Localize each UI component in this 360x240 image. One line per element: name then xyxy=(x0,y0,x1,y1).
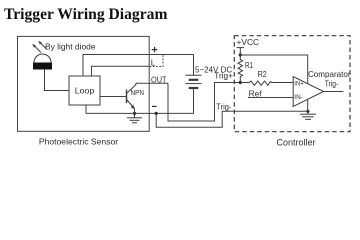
svg-text:NPN: NPN xyxy=(131,88,145,97)
wire emitter to minus rail xyxy=(134,109,136,114)
svg-text:+VCC: +VCC xyxy=(237,37,260,47)
svg-text:L: L xyxy=(151,57,156,67)
node emitter junction xyxy=(133,112,136,115)
wire L rail to Loop top xyxy=(92,66,150,76)
svg-text:R2: R2 xyxy=(258,70,267,79)
wire op-amp bottom to ground xyxy=(307,100,309,112)
svg-text:Ref: Ref xyxy=(249,89,263,99)
svg-text:Trig-: Trig- xyxy=(216,103,231,112)
ground sensor xyxy=(127,113,142,122)
svg-text:R1: R1 xyxy=(245,61,253,70)
box Loop xyxy=(69,76,100,105)
wire L dashed link to plus xyxy=(150,55,164,67)
node R1 bottom junction xyxy=(239,81,242,84)
svg-text:Loop: Loop xyxy=(75,86,95,96)
wire bottom return to controller xyxy=(156,111,308,127)
wire minus rail xyxy=(86,112,194,114)
node minus junction xyxy=(155,112,158,115)
svg-text:Trigger Wiring Diagram: Trigger Wiring Diagram xyxy=(4,6,167,23)
label minus terminal xyxy=(152,105,157,107)
resistor R2 xyxy=(240,81,293,85)
svg-text:OUT: OUT xyxy=(151,74,167,84)
svg-text:Trig+: Trig+ xyxy=(214,72,233,81)
transistor Q1 NPN xyxy=(127,85,137,110)
box Photoelectric Sensor xyxy=(18,36,150,131)
wire Ref to op-amp IN- xyxy=(248,97,293,99)
label plus terminal xyxy=(152,47,158,53)
svg-text:Photoelectric Sensor: Photoelectric Sensor xyxy=(39,137,118,147)
battery BT1 xyxy=(186,55,202,114)
node op-amp ground junction xyxy=(306,110,309,113)
wire Loop bottom to minus rail xyxy=(85,105,87,113)
node VCC junction xyxy=(239,53,242,56)
svg-text:IN-: IN- xyxy=(294,94,303,101)
svg-text:Comparator: Comparator xyxy=(308,70,351,79)
svg-text:Trig-: Trig- xyxy=(325,79,339,88)
wire VCC rail to op-amp top xyxy=(240,55,307,84)
svg-text:IN+: IN+ xyxy=(294,80,304,87)
photodiode D1 xyxy=(32,41,52,70)
wire Loop right to NPN base xyxy=(100,96,126,98)
wire plus rail to Loop top xyxy=(83,55,194,77)
wire photodiode to Loop xyxy=(45,70,70,91)
resistor R1 xyxy=(238,55,242,83)
wire op-amp output xyxy=(324,91,344,93)
op-amp U1 comparator xyxy=(293,77,323,107)
svg-text:Controller: Controller xyxy=(276,137,315,147)
svg-text:By light diode: By light diode xyxy=(45,42,96,52)
wire OUT routing under battery xyxy=(168,83,240,122)
box Controller dashed xyxy=(234,36,350,132)
ground controller xyxy=(300,111,316,119)
wire collector to OUT rail xyxy=(136,83,168,84)
